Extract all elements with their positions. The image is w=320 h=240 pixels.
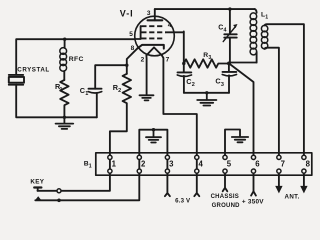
ground (heater pin 2) [140, 95, 154, 100]
wire terminal 7 antenna arrow [278, 174, 280, 186]
wire terminal 2 down to key [35, 157, 139, 200]
svg-text:1: 1 [112, 160, 117, 169]
wire terminal 5 chassis ground bracket [225, 130, 240, 158]
tube V1 heater [146, 47, 162, 55]
node C2C3 ground junction [205, 91, 208, 94]
svg-text:6: 6 [255, 160, 260, 169]
svg-text:7: 7 [166, 57, 170, 64]
svg-text:1: 1 [265, 15, 268, 21]
svg-text:3: 3 [147, 10, 151, 17]
ground (chassis, terminal 5) [232, 137, 248, 142]
wire terminal 3 fork 6.3V [165, 157, 170, 196]
wire terminal 2-3 ground bracket [139, 130, 167, 157]
key jack [30, 179, 61, 203]
svg-text:ANT.: ANT. [285, 193, 300, 200]
svg-text:1: 1 [85, 91, 88, 97]
inductor L1 secondary [261, 12, 304, 157]
ground (main, below R1) [56, 117, 74, 129]
tube V1 plate [148, 19, 163, 21]
svg-text:2: 2 [141, 160, 146, 169]
capacitor C3 [215, 63, 236, 92]
svg-text:CHASSIS: CHASSIS [211, 194, 239, 200]
svg-text:3: 3 [208, 55, 211, 61]
node C4 top junction [228, 7, 231, 10]
wire terminal 5 fork chassis [223, 174, 228, 191]
terminal circles row [108, 155, 306, 173]
svg-text:1: 1 [60, 87, 63, 93]
tube V1 grid 3 (suppressor) [141, 37, 165, 39]
wire tank diagonal to +350V [229, 63, 254, 157]
svg-text:3: 3 [169, 160, 174, 169]
tube V1 grid 2 (screen) [141, 31, 166, 33]
wire terminal 8 antenna arrow [303, 174, 305, 186]
wire C2 C3 bottom bus [184, 92, 229, 94]
svg-text:V-I: V-I [120, 8, 134, 18]
capacitor C1 [80, 65, 127, 117]
svg-text:3: 3 [221, 82, 224, 88]
ground (C2 C3) [197, 93, 216, 106]
svg-text:2: 2 [141, 57, 145, 64]
svg-text:+ 350V: + 350V [242, 199, 264, 206]
node screen junction [182, 62, 185, 65]
wire crystal bottom [16, 85, 97, 118]
svg-text:CRYSTAL: CRYSTAL [17, 67, 49, 74]
tube V1 envelope [135, 16, 175, 56]
svg-text:1: 1 [89, 164, 92, 170]
svg-text:4: 4 [224, 28, 227, 34]
wire tank to coil bottom [229, 62, 257, 65]
node bracket ground junction [152, 128, 155, 131]
svg-text:2: 2 [192, 82, 195, 88]
wire terminal 6 fork +350V [251, 174, 256, 196]
wire heater pin 2 down [145, 55, 147, 95]
tube V1 screen lead pin 4 [166, 31, 184, 33]
resistor R1 [55, 80, 69, 117]
wire plate top bus [155, 8, 255, 10]
inductor L1 primary [250, 9, 257, 62]
resistor R3 [184, 52, 229, 68]
svg-text:8: 8 [131, 45, 135, 52]
wire terminal 1 down to key [38, 157, 110, 191]
terminal strip B1 [96, 153, 312, 175]
terminal numbers [112, 159, 311, 168]
node cathode junction [125, 63, 128, 66]
resistor R2 [110, 74, 131, 157]
svg-text:6.3 V: 6.3 V [175, 198, 191, 205]
tube V1 grid left bracket / pin 5 [135, 26, 141, 39]
node tank junction [227, 62, 231, 66]
node RFC top junction [63, 38, 66, 41]
capacitor C4 (variable) [218, 9, 237, 63]
node ground junction [63, 116, 66, 119]
svg-text:RFC: RFC [69, 56, 84, 63]
wire screen pin4 down [183, 31, 185, 72]
wire cathode lead pin 8 [127, 48, 138, 74]
svg-text:KEY: KEY [30, 179, 44, 186]
inductor RFC [60, 39, 84, 80]
svg-text:4: 4 [199, 160, 204, 169]
wire terminal 4 fork 6.3V [194, 157, 199, 196]
ground (terminals 2-3) [146, 130, 161, 143]
svg-text:GROUND: GROUND [212, 203, 241, 209]
svg-text:2: 2 [118, 88, 121, 94]
svg-text:8: 8 [306, 159, 311, 168]
svg-text:C: C [218, 25, 223, 32]
tube V1 cathode [138, 45, 164, 49]
svg-text:5: 5 [227, 160, 232, 169]
wire grid top bus [16, 39, 135, 74]
svg-text:7: 7 [281, 159, 285, 168]
wire heater pin 7 to terminal 4 [162, 55, 197, 157]
capacitor C2 [177, 72, 195, 92]
svg-text:4: 4 [168, 22, 172, 29]
tube V1 grid 1 (control) [141, 25, 165, 27]
svg-text:5: 5 [129, 31, 133, 38]
crystal Y1 [9, 67, 50, 85]
